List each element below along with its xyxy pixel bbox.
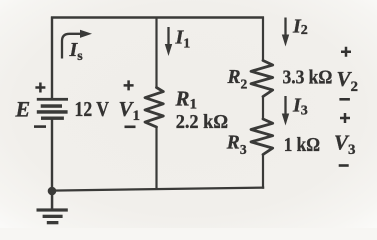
svg-text:1 kΩ: 1 kΩ [284, 134, 320, 156]
wire: right branch below R3 [262, 154, 264, 189]
wire: R1 branch below resistor [155, 127, 157, 191]
resistor R3 zigzag [251, 119, 273, 155]
battery E plates [37, 98, 68, 120]
wire: R1 branch above resistor [155, 17, 157, 88]
minus sign V1 [125, 126, 136, 129]
battery - terminal sign [34, 125, 46, 128]
wire: top bus from E branch to R2 branch [51, 16, 264, 18]
svg-text:E: E [15, 96, 31, 121]
current arrow I2 [282, 18, 289, 47]
resistor R1 zigzag [145, 88, 163, 128]
current arrow I1 [165, 27, 172, 56]
current arrow I3 [282, 96, 289, 126]
plus sign V3 [340, 113, 350, 123]
wire: left branch below battery [51, 120, 53, 192]
svg-text:3.3 kΩ: 3.3 kΩ [283, 67, 333, 89]
plus sign V2 [341, 47, 351, 57]
ground [37, 191, 68, 224]
resistor R2 zigzag [251, 61, 273, 97]
wire: bottom bus [51, 188, 264, 191]
battery + terminal sign [35, 83, 45, 93]
current arrow Is (hook) [62, 30, 92, 59]
wire: between R2 and R3 [262, 96, 264, 120]
minus sign V3 [339, 164, 349, 167]
svg-text:2.2 kΩ: 2.2 kΩ [176, 111, 228, 133]
plus sign V1 [124, 80, 134, 90]
minus sign V2 [339, 98, 350, 101]
wire: left branch above battery [51, 17, 53, 99]
wire: right branch above R2 [262, 17, 264, 62]
svg-text:12 V: 12 V [75, 97, 110, 121]
junction node dot at E/ground/bottom bus [48, 187, 57, 196]
